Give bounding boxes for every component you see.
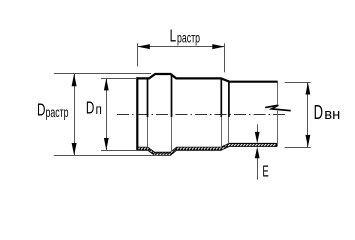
svg-text:D: D: [314, 101, 323, 124]
svg-text:D: D: [86, 98, 94, 118]
svg-text:п: п: [96, 101, 102, 117]
svg-text:растр: растр: [177, 32, 200, 46]
svg-text:D: D: [37, 100, 45, 120]
svg-text:растр: растр: [46, 106, 69, 120]
svg-text:L: L: [170, 26, 177, 46]
svg-text:вн: вн: [324, 107, 340, 123]
svg-text:E: E: [262, 162, 269, 180]
